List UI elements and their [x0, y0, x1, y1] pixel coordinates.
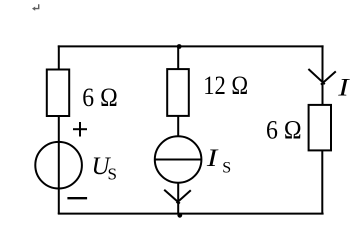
arrowhead current source: [164, 190, 191, 204]
label I_S: [206, 145, 219, 172]
svg-text:6 Ω: 6 Ω: [82, 83, 117, 112]
svg-text:6 Ω: 6 Ω: [266, 115, 302, 144]
wire middle branch upper: [177, 46, 179, 70]
node junction top: [177, 44, 182, 49]
minus sign: [67, 197, 87, 199]
svg-text:I: I: [337, 74, 350, 101]
bottom wire: [58, 213, 324, 215]
wire middle to source: [177, 116, 179, 137]
wire middle branch lower: [177, 183, 179, 215]
plus sign: [73, 122, 87, 137]
resistor 12ohm box: [167, 69, 189, 116]
resistor 6ohm right box: [309, 105, 331, 150]
node junction bottom: [177, 213, 182, 218]
svg-text:S: S: [222, 160, 231, 177]
wire right branch upper: [322, 45, 324, 105]
voltage source U_S circle: [35, 142, 82, 189]
current source bar: [155, 159, 201, 161]
svg-text:I: I: [206, 145, 219, 172]
label I: [337, 74, 350, 101]
svg-text:S: S: [108, 165, 117, 184]
wire left branch upper: [58, 45, 60, 70]
svg-text:12 Ω: 12 Ω: [203, 71, 248, 100]
wire right branch lower: [321, 150, 323, 214]
arrowhead current I: [308, 69, 335, 85]
wire left branch lower: [58, 116, 60, 214]
paragraph return mark: [32, 4, 39, 10]
top wire: [58, 45, 324, 47]
current source I_S circle: [155, 136, 202, 183]
resistor 6ohm left box: [47, 70, 69, 117]
